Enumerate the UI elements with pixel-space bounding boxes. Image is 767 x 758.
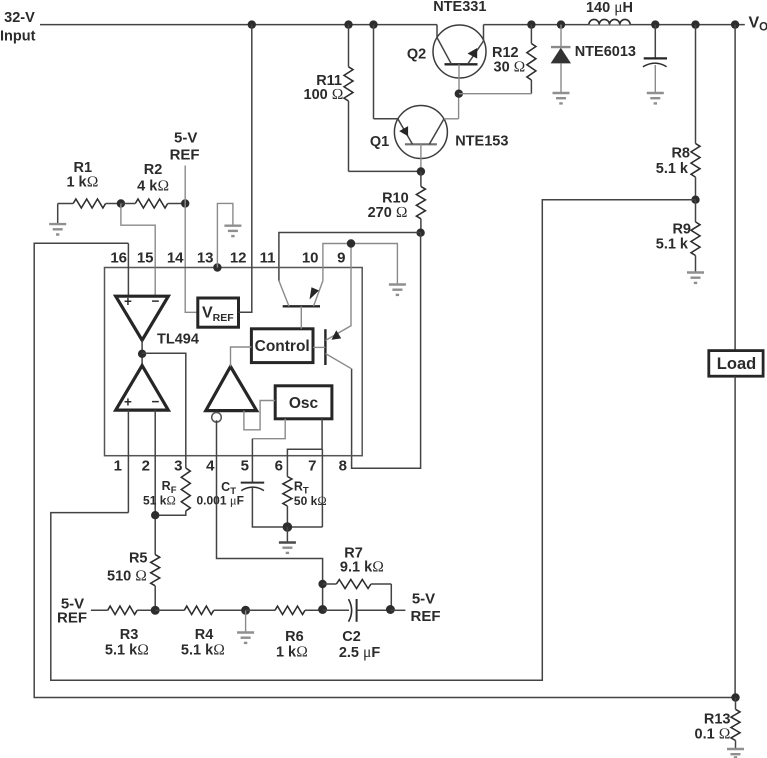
svg-text:12: 12 [230, 250, 247, 267]
junction Q1 base node [417, 167, 425, 175]
label R10 270 ohm [368, 191, 409, 222]
label R5 510 ohm [107, 551, 147, 585]
svg-text:8: 8 [339, 458, 347, 475]
junction R8-R9 feedback node [691, 196, 699, 204]
resistor R9 [691, 200, 700, 272]
svg-text:R5: R5 [129, 551, 148, 567]
wire rail right segment from Q2 emitter to Vo [484, 24, 745, 26]
junction pins 9-10 [347, 239, 355, 247]
svg-text:1 kΩ: 1 kΩ [276, 644, 308, 661]
svg-text:4: 4 [206, 458, 215, 475]
wire R1R2 junction jog to pin 15 [121, 204, 155, 268]
resistor R2 [121, 199, 185, 208]
label 5-V REF top [170, 130, 200, 164]
label C2 2.5 uF [339, 629, 381, 661]
wire 5-V REF / pin 14 to VREF box [185, 166, 198, 313]
wire pin 10 to ground rail [323, 244, 398, 284]
junction pin 13 on edge [213, 263, 221, 271]
resistor RF [155, 468, 190, 515]
wire pin 2 input to R5 [154, 410, 156, 554]
svg-text:5.1 kΩ: 5.1 kΩ [105, 642, 149, 659]
label R9 5.1k [656, 222, 691, 253]
wire R10 bottom to pin 11 [279, 233, 421, 281]
junction rail-Vo/load [731, 20, 739, 28]
ground CT RT [279, 543, 296, 553]
IC box TL494 [105, 268, 363, 456]
label R7 9.1 kohm [340, 546, 384, 576]
svg-text:NTE153: NTE153 [455, 134, 508, 150]
inductor 140uH [589, 19, 630, 24]
label R12 30 ohm [492, 45, 525, 75]
op-amp PWM comparator [206, 367, 257, 411]
junction R1-R2 / pin15 [117, 199, 125, 207]
svg-text:6: 6 [275, 458, 283, 475]
svg-text:NTE6013: NTE6013 [575, 44, 636, 60]
svg-text:NTE331: NTE331 [433, 0, 486, 15]
box Control [251, 329, 313, 363]
svg-text:5-V: 5-V [174, 130, 197, 147]
label R1 1 kohm [66, 160, 98, 190]
wire pin 1 input [127, 410, 129, 512]
svg-text:13: 13 [197, 250, 214, 267]
svg-text:+: + [124, 395, 132, 410]
box Osc [275, 386, 332, 419]
junction EA outputs [138, 350, 146, 358]
wire comparator base to Osc staircase [244, 401, 275, 430]
svg-text:TL494: TL494 [157, 332, 199, 348]
svg-text:5.1 kΩ: 5.1 kΩ [181, 642, 225, 659]
wire comparator output to Control [231, 347, 252, 367]
svg-text:16: 16 [110, 250, 127, 267]
svg-text:REF: REF [170, 147, 200, 164]
svg-text:Load: Load [717, 355, 756, 373]
wire pin 8 to R10 bottom [352, 233, 421, 469]
svg-text:4 kΩ: 4 kΩ [137, 178, 169, 195]
ground pin 13 [224, 226, 241, 236]
wire 32-V input rail left segment [40, 24, 437, 26]
wire bottom outer current sense rail [34, 243, 736, 697]
wire to 5-V REF right [390, 609, 405, 611]
svg-text:9: 9 [337, 250, 345, 267]
svg-text:R3: R3 [120, 627, 139, 643]
svg-text:5: 5 [241, 458, 249, 475]
svg-text:−: − [152, 394, 160, 409]
resistor R3 [91, 606, 155, 614]
svg-text:10: 10 [302, 250, 319, 267]
box VREF [198, 298, 239, 327]
label RT 50 kohm [294, 480, 327, 509]
ground below diode [553, 93, 570, 103]
svg-text:−: − [152, 294, 160, 309]
svg-text:32-V: 32-V [4, 10, 35, 26]
ground below R9 [687, 273, 704, 283]
svg-text:11: 11 [260, 250, 276, 267]
transistor Q2 NTE331 [433, 25, 486, 94]
svg-text:Input: Input [0, 29, 36, 45]
wire pin 15 input [154, 268, 156, 297]
wire junction to ground [286, 527, 288, 542]
svg-text:140 μH: 140 μH [586, 0, 633, 16]
resistor R8 [691, 25, 700, 200]
svg-text:1: 1 [114, 458, 122, 475]
label 5-V REF bottom left [57, 596, 87, 627]
junction R2 - 5V REF [181, 199, 189, 207]
svg-text:R4: R4 [195, 627, 214, 643]
wire R4 junction to ground [245, 610, 247, 631]
capacitor CT [241, 483, 323, 527]
ground below R4 [237, 633, 254, 643]
resistor R1 [58, 199, 121, 223]
resistor R4 [155, 606, 245, 614]
svg-text:R9: R9 [672, 222, 691, 238]
wire Osc to pin 6 and pin 7 [287, 419, 322, 527]
junction rail-diode [557, 20, 565, 28]
label R4 5.1 kohm [181, 627, 225, 659]
node 32-V input label [0, 10, 36, 45]
wire load to R13 node [734, 376, 736, 697]
label R6 1 kohm [276, 629, 308, 661]
svg-text:Q1: Q1 [370, 134, 389, 150]
svg-text:REF: REF [57, 610, 87, 627]
junction rail-R11 [344, 20, 352, 28]
op-amp error amplifier 2 [116, 294, 169, 341]
ground below output cap [647, 93, 664, 103]
ground below R1 left [49, 224, 66, 234]
wire EA output to pin 3 [142, 353, 186, 468]
label RF 51 kohm [143, 479, 177, 508]
wire Osc to pin 5 [252, 419, 285, 439]
capacitor C2 [323, 599, 391, 622]
ground below R13 [727, 749, 744, 757]
resistor R6 [246, 606, 323, 614]
svg-text:30 Ω: 30 Ω [494, 58, 526, 75]
junction rail-output cap [651, 20, 659, 28]
diode NTE6013 [551, 25, 571, 92]
op-amp error amplifier 1 [116, 366, 169, 411]
resistor RT [283, 477, 292, 528]
wire feedback R8/R9 node to pin1 loop [51, 200, 696, 681]
load box [709, 351, 763, 377]
svg-text:0.001 μF: 0.001 μF [197, 494, 244, 508]
svg-text:510 Ω: 510 Ω [107, 567, 147, 584]
capacitor output filter [643, 25, 667, 92]
svg-text:7: 7 [308, 458, 316, 475]
ground pins 9-10 [389, 285, 406, 295]
svg-text:1 kΩ: 1 kΩ [66, 173, 98, 190]
svg-text:Q2: Q2 [407, 47, 426, 63]
svg-text:C2: C2 [342, 629, 361, 645]
node comparator inverting bubble [212, 413, 222, 423]
svg-text:2: 2 [142, 458, 150, 475]
resistor R5 [151, 555, 160, 611]
svg-text:2.5 μF: 2.5 μF [339, 644, 381, 661]
label R13 0.1 ohm [695, 712, 731, 743]
svg-text:R8: R8 [671, 146, 690, 162]
junction rail-Q1 emitter [369, 20, 377, 28]
svg-text:14: 14 [167, 250, 184, 267]
svg-text:0.1 Ω: 0.1 Ω [695, 726, 731, 743]
junction C2 R7 right [386, 605, 395, 614]
svg-text:R2: R2 [144, 162, 163, 178]
resistor R10 [416, 172, 425, 233]
resistor R11 [344, 25, 421, 172]
label CT 0.001 uF [197, 480, 244, 508]
transistor internal T1 [279, 281, 323, 329]
svg-text:9.1 kΩ: 9.1 kΩ [340, 559, 384, 576]
junction RF R5 pin2 [151, 511, 159, 519]
svg-text:5-V: 5-V [412, 591, 435, 608]
svg-text:Osc: Osc [289, 395, 319, 412]
wire pin 4 to R7 node [217, 420, 323, 609]
svg-text:15: 15 [137, 250, 154, 267]
svg-text:REF: REF [411, 608, 441, 625]
label 5-V REF bottom right [411, 591, 441, 625]
wire pin 13 to ground [217, 203, 233, 267]
junction CT RT pin7 [283, 522, 293, 532]
svg-text:3: 3 [174, 458, 182, 475]
svg-text:100 Ω: 100 Ω [304, 86, 344, 103]
label R8 5.1k [656, 146, 690, 177]
svg-text:51 kΩ: 51 kΩ [143, 494, 176, 508]
junction R13 top [731, 693, 739, 701]
resistor R13 [731, 698, 740, 749]
svg-text:270 Ω: 270 Ω [368, 204, 408, 221]
label R3 5.1 kohm [105, 627, 149, 659]
svg-text:+: + [124, 294, 132, 309]
wire Vo vertical to load [734, 25, 736, 351]
svg-text:50 kΩ: 50 kΩ [294, 494, 327, 508]
junction R3-R4-R5 [151, 606, 160, 615]
svg-text:Control: Control [255, 338, 310, 355]
transistor internal T2 [313, 325, 352, 368]
junction rail-pin12 [248, 20, 256, 28]
wire pin 16 input [127, 243, 129, 296]
wire pin 9 [350, 244, 352, 326]
junction R4 ground [241, 606, 250, 615]
junction rail-R12 [527, 20, 535, 28]
svg-text:5.1 k: 5.1 k [656, 237, 689, 253]
svg-text:5.1 k: 5.1 k [656, 161, 689, 177]
wire pin 12 from rail to VREF box [239, 25, 252, 313]
label R11 100 ohm [304, 73, 344, 103]
resistor R7 [323, 580, 392, 610]
junction R6 C2 pin4 [318, 605, 327, 614]
junction rail-R8 [691, 20, 699, 28]
resistor R12 [459, 25, 536, 94]
label R2 4 kohm [137, 162, 169, 195]
junction Q2 base node [455, 90, 463, 98]
junction R10 bottom / pins 8,11 [416, 229, 424, 237]
wire EA outputs junction [141, 340, 143, 365]
junction R7 left [318, 580, 326, 588]
transistor Q1 NTE153 [374, 25, 459, 172]
